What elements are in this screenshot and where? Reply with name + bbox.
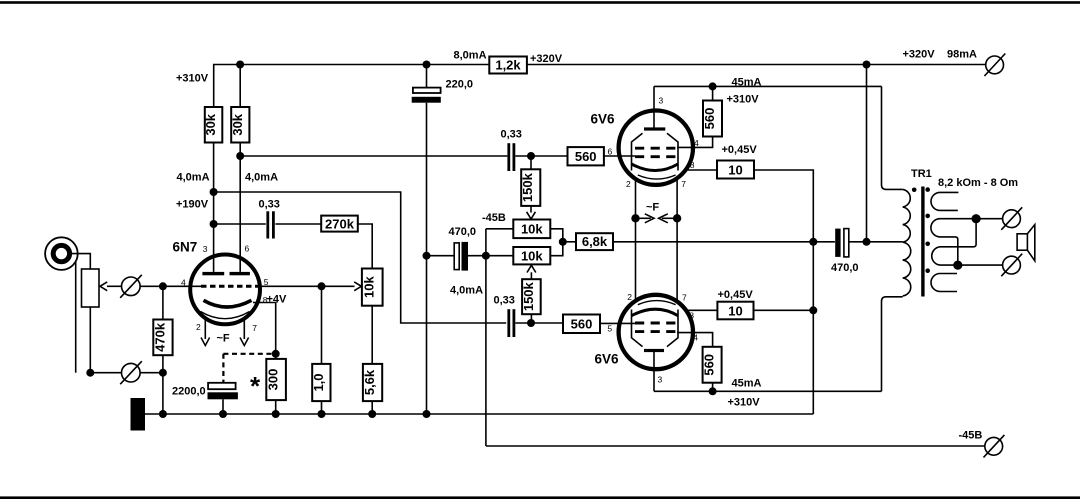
svg-text:~F: ~F — [217, 333, 230, 345]
svg-text:30k: 30k — [203, 113, 218, 135]
6N7 grid dashed line — [201, 285, 260, 288]
svg-text:6N7: 6N7 — [173, 240, 198, 255]
node ground/470k — [159, 410, 167, 418]
6N7 anode bar left — [202, 272, 224, 275]
6V6 lower cathode arc — [632, 309, 679, 316]
svg-text:2: 2 — [626, 179, 631, 189]
svg-text:4: 4 — [694, 138, 699, 148]
wire cap to 560 lower grid — [515, 322, 563, 324]
resistor 560 (lower grid) — [563, 315, 635, 334]
resistor 270k — [321, 216, 358, 232]
svg-text:+310V: +310V — [727, 94, 760, 106]
svg-text:8: 8 — [690, 160, 695, 170]
resistor 150k (lower) — [521, 279, 541, 323]
svg-text:2: 2 — [627, 292, 632, 302]
node -45B/10k lower — [482, 252, 490, 260]
6N7 cathode arc — [204, 300, 252, 307]
wire lower test point to 470k bottom — [140, 372, 163, 374]
wire lower cathode to 10 — [685, 309, 718, 311]
svg-text:6V6: 6V6 — [591, 112, 616, 127]
wire 1,0 top lead — [321, 286, 323, 364]
wire plate1 to 0,33 cap — [214, 223, 266, 225]
svg-text:45mA: 45mA — [732, 77, 762, 89]
capacitor 220,0 (filter) — [412, 65, 441, 415]
wire to 470,0 output cap — [813, 241, 835, 243]
wire cap to 560 upper grid — [515, 155, 567, 157]
svg-text:+310V: +310V — [728, 397, 761, 409]
border bottom — [0, 496, 1080, 499]
svg-text:150k: 150k — [520, 172, 535, 202]
wire 1,0 to ground — [321, 401, 323, 414]
wire test point to grid pin4 — [140, 285, 201, 287]
svg-text:470,0: 470,0 — [449, 226, 477, 238]
6V6 lower anode bar — [644, 349, 664, 352]
node pin5/1,0 junction — [318, 282, 326, 290]
6V6 upper grid dashes row2 — [635, 155, 675, 158]
capacitor 0,33 (upper coupling) — [509, 143, 514, 171]
transformer secondary S3 — [932, 219, 1003, 265]
6V6 upper beam plates — [632, 133, 679, 170]
6N7 cathode wire to 300 — [253, 303, 276, 359]
svg-text:+0,45V: +0,45V — [718, 289, 754, 301]
svg-text:*: * — [250, 371, 261, 401]
resistor 5,6k — [362, 364, 382, 401]
svg-text:+190V: +190V — [176, 199, 209, 211]
svg-text:6V6: 6V6 — [595, 352, 620, 367]
svg-text:470,0: 470,0 — [831, 262, 859, 274]
input connector outer ring — [45, 237, 78, 270]
svg-text:6: 6 — [608, 147, 613, 157]
svg-text:470k: 470k — [152, 322, 167, 352]
wire 270k to 10k top — [358, 224, 372, 269]
node ground/2200,0 — [219, 410, 227, 418]
wire connector pin to pot top — [70, 254, 91, 269]
svg-text:3: 3 — [658, 375, 663, 385]
resistor 300 (cathode bias) — [266, 359, 286, 414]
resistor 10k (inverter lower) — [513, 247, 550, 264]
secondary S4 polarity dot — [925, 268, 930, 273]
resistor 150k (upper) — [520, 156, 540, 206]
svg-text:+4V: +4V — [267, 294, 288, 306]
svg-text:10k: 10k — [521, 248, 543, 263]
svg-text:TR1: TR1 — [911, 168, 932, 180]
svg-text:+320V: +320V — [903, 49, 936, 61]
svg-text:5: 5 — [607, 324, 612, 334]
capacitor 0,33 (driver stage) — [268, 211, 274, 238]
tube 6V6 lower envelope — [619, 295, 693, 369]
wire +190V to lower coupling cap — [214, 192, 507, 323]
node pot/shell junction — [86, 369, 94, 377]
svg-text:3: 3 — [203, 244, 208, 254]
svg-text:4,0mA: 4,0mA — [177, 172, 210, 184]
node anode/560 screen upper — [709, 82, 717, 90]
wire -45B to 10k lower — [486, 255, 513, 257]
svg-text:7: 7 — [681, 179, 686, 189]
node plate1/0,33 junction — [210, 220, 218, 228]
svg-text:8,2 kOm - 8 Om: 8,2 kOm - 8 Om — [938, 177, 1018, 189]
wire 10 upper to feedback column — [754, 170, 813, 242]
svg-text:8,0mA: 8,0mA — [454, 50, 487, 62]
node feedback/6,8k — [809, 238, 817, 246]
node 10k join — [559, 238, 567, 246]
svg-text:560: 560 — [702, 108, 717, 130]
wire ground bus — [145, 413, 813, 415]
svg-text:0,33: 0,33 — [259, 199, 280, 211]
svg-text:270k: 270k — [325, 216, 355, 231]
test point lower (crossed circle) — [120, 361, 142, 384]
resistor 1,0 — [311, 364, 331, 401]
svg-text:2200,0: 2200,0 — [172, 386, 206, 398]
resistor 6,8k — [563, 233, 613, 250]
6V6 upper cathode arc — [632, 164, 679, 171]
svg-text:5,6k: 5,6k — [362, 369, 377, 395]
resistor 10k (driver load) — [362, 269, 383, 306]
node cathode/bias junction — [272, 350, 280, 358]
wire 10 lower to feedback column — [754, 309, 814, 311]
svg-text:30k: 30k — [230, 113, 245, 135]
node ground/300 — [272, 410, 280, 418]
svg-text:1,2k: 1,2k — [495, 58, 521, 73]
wire 10k outputs join — [550, 229, 563, 256]
svg-text:45mA: 45mA — [732, 378, 762, 390]
wire pin5 to 10k with arrow — [260, 282, 362, 291]
svg-text:5: 5 — [264, 277, 269, 287]
6V6 upper glass arc — [638, 175, 676, 179]
svg-text:7: 7 — [252, 323, 257, 333]
svg-text:10: 10 — [728, 304, 742, 319]
wire upper coupling — [240, 155, 507, 157]
transformer secondary S2 — [931, 219, 976, 265]
svg-text:8: 8 — [689, 311, 694, 321]
wire B+ to center tap — [867, 65, 903, 242]
6V6 lower grid dashes row1 — [635, 322, 675, 325]
resistor 560 (upper grid) — [568, 147, 636, 165]
transformer TR1 primary winding — [903, 189, 911, 296]
ground chassis bar — [131, 398, 146, 431]
svg-text:+310V: +310V — [176, 73, 209, 85]
resistor 10 (upper cathode) — [717, 161, 754, 179]
svg-text:220,0: 220,0 — [446, 79, 474, 91]
secondary S1 polarity dot — [925, 187, 930, 192]
svg-text:560: 560 — [575, 149, 597, 164]
terminal -45B — [984, 435, 1005, 458]
6V6 upper anode bar — [644, 127, 665, 130]
arrow 150k lower to 10k — [527, 265, 536, 279]
wire 6,8k to feedback column — [613, 241, 813, 243]
potentiometer volume — [82, 269, 100, 307]
node secondary output upper — [972, 214, 981, 223]
transformer primary polarity dot — [912, 188, 917, 193]
svg-text:4,0mA: 4,0mA — [450, 285, 483, 297]
node filament right — [673, 214, 681, 222]
secondary S3 polarity dot — [925, 242, 930, 247]
svg-text:4: 4 — [693, 332, 698, 342]
node 220line/470,0 junction — [423, 252, 431, 260]
resistor 470k — [152, 286, 172, 414]
svg-text:+320V: +320V — [530, 53, 563, 65]
node grid/470k junction — [159, 282, 167, 290]
svg-text:-45B: -45B — [959, 430, 983, 442]
svg-text:560: 560 — [571, 317, 593, 332]
wire -45B riser — [485, 229, 487, 446]
resistor 560 (upper screen) — [677, 86, 722, 147]
input connector center pin — [53, 245, 69, 261]
node bus/center-tap junction — [863, 61, 871, 69]
terminal speaker lower — [1001, 254, 1022, 277]
svg-text:7: 7 — [682, 292, 687, 302]
dashed wire bias option — [223, 354, 275, 383]
transformer secondary S4 — [931, 274, 957, 292]
terminal speaker upper — [1001, 207, 1022, 230]
wire upper cathode to 10 — [685, 169, 718, 171]
svg-text:6,8k: 6,8k — [582, 234, 608, 249]
6N7 filament lead pin2 with arrow — [201, 319, 210, 346]
svg-text:10: 10 — [728, 163, 742, 178]
wire 10k to 5,6k — [371, 306, 373, 364]
capacitor 470,0 (bias filter) — [454, 242, 486, 271]
6V6 lower beam plates — [632, 310, 679, 347]
6N7 anode bar right — [230, 272, 250, 275]
resistor 560 (lower screen) — [677, 333, 722, 392]
svg-text:-45B: -45B — [482, 212, 506, 224]
border top — [0, 1, 1080, 4]
6V6 lower glass arc — [638, 301, 676, 305]
resistor 10 (lower cathode) — [717, 302, 753, 320]
wire feedback column to ground — [812, 242, 814, 414]
wire to 470,0 input cap — [427, 255, 455, 257]
wire filament right (pins 7) — [676, 179, 678, 300]
svg-text:98mA: 98mA — [947, 49, 977, 61]
wire 30k left to plate (pin3 column) — [213, 143, 215, 272]
wire 5,6k to ground — [371, 401, 373, 414]
node bus/30k junction — [236, 61, 244, 69]
tube 6N7 envelope — [190, 255, 260, 325]
test point upper (crossed circle) — [120, 275, 142, 298]
svg-text:6: 6 — [245, 244, 250, 254]
6V6 upper grid dashes row1 — [635, 147, 675, 150]
wire lower anode to transformer — [654, 297, 903, 392]
wire -45B to 10k upper — [486, 228, 513, 230]
wire +320V top bus — [214, 65, 986, 108]
svg-text:150k: 150k — [521, 281, 536, 311]
wire connector shell down — [75, 262, 77, 373]
capacitor 2200,0 (cathode bypass) — [208, 383, 238, 414]
resistor 1,2k — [489, 57, 527, 74]
secondary S2 polarity dot — [925, 214, 930, 219]
6V6 lower grid dashes row2 — [635, 330, 675, 333]
6N7 filament arc — [201, 312, 250, 319]
node 150k lower junction — [527, 319, 535, 327]
node 470k bottom junction — [159, 369, 167, 377]
svg-text:10k: 10k — [362, 275, 377, 297]
resistor R 30k (left) — [203, 107, 222, 143]
tube 6V6 upper envelope — [619, 111, 693, 185]
svg-text:+0,45V: +0,45V — [722, 144, 758, 156]
node secondary output lower — [953, 261, 962, 270]
arrow 150k to 10k upper — [527, 206, 536, 219]
wire filament left (pins 2) — [635, 179, 637, 300]
node ground/220,0 — [423, 410, 431, 418]
filament arrows — [636, 214, 678, 223]
svg-text:4,0mA: 4,0mA — [245, 172, 278, 184]
svg-text:1,0: 1,0 — [311, 373, 326, 391]
svg-text:300: 300 — [266, 369, 281, 391]
transformer TR1 core — [921, 187, 924, 297]
wire 0,33 to 270k — [275, 223, 321, 225]
potentiometer wiper arrow — [100, 282, 121, 291]
transformer secondary S1 — [931, 192, 958, 210]
node 30k2/coupling junction — [236, 152, 244, 160]
resistor R 30k (right) — [230, 65, 250, 143]
speaker icon — [1017, 225, 1035, 261]
node anode/560 screen lower — [709, 387, 717, 395]
svg-text:~F: ~F — [646, 202, 659, 214]
resistor 10k (inverter upper) — [513, 220, 550, 239]
wire upper anode to transformer — [654, 86, 903, 189]
svg-text:10k: 10k — [521, 222, 543, 237]
node B+/center tap — [863, 238, 871, 246]
node feedback/10 lower — [809, 306, 817, 314]
svg-text:0,33: 0,33 — [494, 295, 515, 307]
node ground/1,0 — [318, 410, 326, 418]
node bus/220,0 junction — [423, 61, 431, 69]
svg-text:560: 560 — [702, 354, 717, 376]
node +190V — [210, 188, 218, 196]
wire to speaker terminal upper — [976, 218, 1003, 220]
wire -45B rail — [486, 445, 985, 447]
capacitor 0,33 (lower coupling) — [509, 309, 514, 337]
node filament left — [631, 214, 639, 222]
svg-text:0,33: 0,33 — [501, 129, 522, 141]
capacitor 470,0 (B+ filter) — [835, 229, 866, 257]
terminal +320V output — [984, 54, 1005, 77]
svg-text:3: 3 — [659, 96, 664, 106]
wire pot bottom to lower test point — [90, 307, 121, 373]
svg-text:2: 2 — [196, 322, 201, 332]
node 150k upper junction — [527, 152, 535, 160]
wire 30k right to plate (pin6 column) — [239, 143, 241, 272]
node ground/5,6k — [368, 410, 376, 418]
6N7 filament lead pin7 with arrow — [240, 319, 249, 346]
